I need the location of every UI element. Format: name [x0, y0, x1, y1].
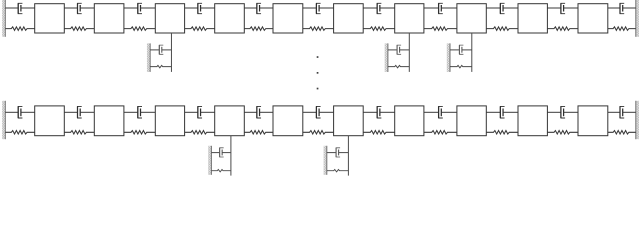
wall ground m2_6 (fixed support)	[324, 146, 327, 175]
damper cg_m1_8	[450, 45, 472, 54]
damper c1_8	[424, 3, 457, 13]
wire (drop rod to mass m2_4)	[230, 136, 232, 176]
damper c2_4	[185, 106, 215, 118]
damper cg_m2_4	[211, 148, 231, 157]
damper c1_11	[608, 3, 636, 13]
mass m1_4	[215, 4, 245, 33]
wall ground m1_7 (fixed support)	[385, 43, 388, 72]
wall W1R (fixed support)	[636, 0, 639, 37]
mass m2_5	[273, 106, 303, 136]
wall W2L (fixed support)	[2, 101, 5, 139]
spring k2_1	[5, 131, 34, 135]
wire (drop rod to mass m1_3)	[170, 33, 172, 72]
spring kg_m1_3 (to ground)	[150, 65, 171, 67]
damper c1_5	[244, 3, 273, 13]
spring kg_m2_6 (to ground)	[327, 170, 349, 172]
damper c1_1	[5, 3, 34, 13]
spring k1_10	[547, 27, 578, 31]
spring k1_5	[244, 27, 273, 31]
damper c2_9	[486, 106, 518, 118]
spring kg_m1_8 (to ground)	[450, 65, 472, 67]
spring k1_7	[363, 27, 395, 31]
damper c2_8	[424, 106, 457, 118]
spring k2_4	[185, 131, 215, 135]
damper c1_10	[547, 3, 578, 13]
mass m1_1	[35, 4, 65, 33]
mass m2_7	[395, 106, 424, 136]
damper c1_3	[124, 3, 155, 13]
mass m2_8	[457, 106, 486, 136]
mass m2_3	[155, 106, 184, 136]
spring kg_m2_4 (to ground)	[211, 170, 231, 172]
wire (drop rod to mass m1_8)	[471, 33, 473, 72]
damper c1_2	[64, 3, 94, 13]
damper c2_3	[124, 106, 155, 118]
mass m1_10	[578, 4, 608, 33]
damper c1_7	[363, 3, 395, 13]
spring k2_8	[424, 131, 457, 135]
damper c2_10	[547, 106, 578, 118]
damper c2_7	[363, 106, 395, 118]
damper cg_m1_3	[150, 45, 171, 54]
spring k2_7	[363, 131, 395, 135]
damper c2_11	[608, 106, 636, 118]
spring k1_9	[486, 27, 518, 31]
wall ground m1_8 (fixed support)	[447, 43, 450, 72]
mass m1_5	[273, 4, 303, 33]
damper c1_9	[486, 3, 518, 13]
spring k1_1	[5, 27, 34, 31]
spring k1_6	[303, 27, 334, 31]
damper c2_1	[5, 106, 34, 118]
mass m2_4	[215, 106, 245, 136]
wire (drop rod to mass m2_6)	[347, 136, 349, 176]
wall W1L (fixed support)	[2, 0, 5, 37]
spring k1_8	[424, 27, 457, 31]
vertical ellipsis (continuation dots)	[317, 56, 319, 89]
spring k2_6	[303, 131, 334, 135]
damper c1_4	[185, 3, 215, 13]
mass m2_10	[578, 106, 608, 136]
spring k1_2	[64, 27, 94, 31]
wire (drop rod to mass m1_7)	[408, 33, 410, 72]
spring k2_5	[244, 131, 273, 135]
damper cg_m2_6	[327, 148, 349, 157]
wall ground m1_3 (fixed support)	[147, 43, 150, 72]
wall ground m2_4 (fixed support)	[208, 146, 211, 175]
spring kg_m1_7 (to ground)	[388, 65, 409, 67]
wall W2R (fixed support)	[636, 101, 639, 139]
damper c1_6	[303, 3, 334, 13]
damper c2_6	[303, 106, 334, 118]
mass m2_9	[518, 106, 547, 136]
mass m1_9	[518, 4, 547, 33]
spring k2_2	[64, 131, 94, 135]
mass m2_6	[334, 106, 364, 136]
damper c2_2	[64, 106, 94, 118]
damper c2_5	[244, 106, 273, 118]
mass m1_2	[94, 4, 124, 33]
mass m1_7	[395, 4, 424, 33]
spring k2_10	[547, 131, 578, 135]
mass m1_8	[457, 4, 486, 33]
spring k1_3	[124, 27, 155, 31]
mass m1_6	[334, 4, 364, 33]
spring k1_11	[608, 27, 636, 31]
spring k2_11	[608, 131, 636, 135]
mass m2_2	[94, 106, 124, 136]
spring k1_4	[185, 27, 215, 31]
mass m2_1	[35, 106, 65, 136]
damper cg_m1_7	[388, 45, 409, 54]
spring k2_9	[486, 131, 518, 135]
mass m1_3	[155, 4, 184, 33]
spring k2_3	[124, 131, 155, 135]
